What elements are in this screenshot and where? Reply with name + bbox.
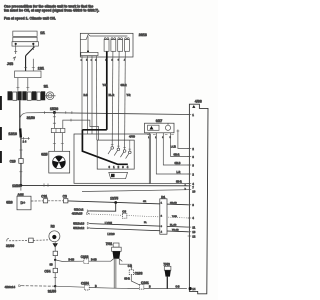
stub 5/1C:2	[90, 203, 116, 212]
left strip wires down	[81, 57, 83, 130]
svg-text:L-LR: L-LR	[171, 147, 177, 149]
wire C54 down to bus	[54, 273, 56, 286]
wire fuse 3 output	[117, 52, 120, 148]
climate control unit 4/88	[189, 99, 208, 293]
side tick with pins	[21, 137, 30, 139]
dotted row 4/15:15	[89, 214, 189, 218]
wire ground down	[54, 242, 56, 251]
svg-text:3: 3	[192, 163, 194, 167]
svg-text:8: 8	[192, 203, 194, 207]
ground point circle R3	[49, 225, 60, 248]
svg-text:3/1: 3/1	[44, 84, 49, 88]
svg-text:C161: C161	[141, 281, 149, 285]
tick a	[20, 149, 23, 151]
wire junction down to resistor	[53, 113, 55, 129]
wire C163 to 7/41	[89, 260, 111, 262]
wire 6/26 to C31 to C3 to 13/75 row	[31, 200, 64, 202]
wire relay pin 2 to 4/88 pin 2	[156, 133, 189, 174]
svg-text:2: 2	[192, 172, 194, 176]
connector C31	[41, 195, 48, 203]
svg-text:SB: SB	[50, 264, 54, 266]
fuse 1	[104, 38, 109, 52]
fuse 2	[111, 38, 116, 52]
svg-text:31/50: 31/50	[27, 116, 35, 120]
svg-text:GR-R: GR-R	[174, 155, 180, 157]
wire relay pin 3 to 4/88 pin 3	[163, 133, 189, 165]
fuse box bottom pins left strip	[82, 56, 97, 57]
fuse box pin number specks	[81, 59, 126, 62]
svg-text:C-B: C-B	[176, 287, 180, 289]
row 5/1B:13	[90, 224, 189, 228]
svg-text:1 4: 1 4	[23, 140, 27, 144]
contact hook 34/3	[13, 57, 16, 61]
svg-text:3: 3	[162, 137, 164, 139]
svg-text:4/40: 4/40	[129, 135, 135, 139]
svg-text:C3: C3	[122, 210, 126, 214]
fuse box 20/18	[80, 33, 147, 57]
svg-text:5: 5	[170, 137, 172, 139]
wire relay pin 1 to 4/88 pin 4	[149, 133, 189, 184]
svg-text:fan must be ON, at any speed (: fan must be ON, at any speed (signal fro…	[4, 9, 99, 13]
svg-text:C163: C163	[135, 271, 143, 275]
svg-text:C163: C163	[81, 255, 89, 259]
relay pins down and right to 4/88	[178, 130, 189, 149]
svg-text:14: 14	[192, 287, 195, 291]
fuse 13/16 thick segment	[19, 128, 22, 137]
svg-text:4: 4	[192, 216, 194, 220]
top bus	[80, 34, 127, 39]
svg-text:BL-SB: BL-SB	[170, 225, 177, 227]
connector strip bottom-left	[81, 52, 98, 55]
fan switch inner box	[97, 140, 134, 169]
connector C161	[139, 281, 149, 289]
svg-text:4: 4	[192, 182, 194, 186]
svg-text:C54: C54	[44, 269, 50, 273]
fuse output wires	[111, 52, 114, 147]
svg-text:Fan at speed 1. Climate unit O: Fan at speed 1. Climate unit ON.	[4, 17, 56, 21]
fuse 3	[118, 38, 123, 52]
inline connector D1	[160, 195, 167, 234]
svg-text:R-B: R-B	[84, 94, 89, 97]
note text block	[4, 5, 99, 21]
row 5/1B:12	[90, 228, 189, 232]
svg-text:1/1: 1/1	[40, 31, 45, 35]
svg-text:J4/3: J4/3	[7, 62, 13, 66]
svg-text:D+: D+	[21, 201, 26, 205]
4/88 pin ticks and numbers	[188, 115, 192, 237]
svg-text:1: 1	[192, 113, 194, 117]
connector C3 dashed on dotted row	[122, 210, 127, 219]
wire C19 down	[20, 163, 22, 185]
svg-text:VO-SB: VO-SB	[172, 230, 179, 232]
sensor 7/41	[106, 242, 123, 261]
scan edge artifacts left margin	[0, 96, 2, 163]
contact levers	[111, 145, 131, 150]
ground 31/60	[6, 238, 50, 248]
svg-text:L-R: L-R	[177, 172, 181, 174]
fuse 4	[125, 38, 130, 52]
wire C163 to C161	[131, 275, 139, 285]
row wire color specks	[143, 201, 179, 231]
svg-text:10: 10	[192, 190, 195, 194]
fan motor 6/25	[41, 151, 69, 173]
svg-text:1: 1	[148, 137, 150, 139]
wire fuse 4 output	[124, 52, 127, 150]
svg-text:7: 7	[192, 186, 194, 190]
long wire 13/29 to 4/88 pin 7	[21, 184, 189, 186]
wires 13/1 to heater switch	[18, 78, 28, 91]
svg-text:Y-SB: Y-SB	[172, 216, 177, 218]
svg-text:BL: BL	[144, 222, 148, 224]
svg-text:7/43: 7/43	[163, 262, 170, 266]
connector C3	[63, 195, 68, 203]
junction 13/29	[20, 184, 23, 187]
wire below fuse	[20, 138, 22, 159]
wires resistor to fan	[54, 133, 62, 152]
svg-text:Y-R: Y-R	[103, 84, 107, 87]
wire right terminal down	[32, 45, 34, 71]
svg-text:C-R: C-R	[128, 266, 132, 268]
thick wire fuse1 speed path	[82, 52, 127, 165]
svg-text:R3: R3	[51, 225, 55, 229]
battery/ignition unit 1/1	[12, 31, 45, 46]
svg-text:11: 11	[192, 226, 195, 230]
svg-text:13/16: 13/16	[8, 132, 17, 136]
7/41 right leg to C163b	[119, 259, 131, 270]
svg-text:6: 6	[192, 155, 194, 159]
svg-text:LV25: LV25	[105, 221, 112, 225]
svg-text:0 1 2 3 4: 0 1 2 3 4	[109, 165, 130, 169]
svg-text:OR-B: OR-B	[175, 163, 181, 165]
wire relay pin 5 to 4/88 pin 6	[171, 133, 189, 157]
svg-text:15/36: 15/36	[50, 107, 58, 111]
svg-text:7/41: 7/41	[106, 242, 113, 246]
relay 6/27	[145, 119, 175, 133]
branch wire to pin 10	[82, 190, 189, 192]
connector C19	[10, 159, 24, 164]
svg-text:12: 12	[192, 235, 195, 239]
svg-text:GR-SB: GR-SB	[170, 203, 177, 205]
connector box 13/1	[15, 66, 45, 77]
fan switch outer box	[74, 134, 150, 183]
svg-text:13/1: 13/1	[38, 66, 44, 70]
contact circles	[111, 147, 114, 150]
resistor return wire up and right	[63, 120, 99, 140]
svg-text:D1: D1	[161, 195, 165, 199]
svg-text:4/15:15: 4/15:15	[72, 212, 83, 216]
wire bottom bus to 4/88 pin 14	[89, 288, 187, 289]
svg-text:C19: C19	[10, 160, 16, 164]
heater control switch 3/1 row	[8, 84, 49, 100]
long horizontal wire to 4/88 pin 1	[45, 113, 189, 115]
svg-text:5/1B:12: 5/1B:12	[73, 226, 84, 230]
svg-text:6/26: 6/26	[6, 200, 13, 204]
wire from left terminal	[15, 45, 17, 54]
knob trapezoid	[109, 172, 128, 178]
bus 15/36 junction	[53, 111, 56, 114]
svg-text:6/27: 6/27	[156, 119, 163, 123]
svg-text:31/60: 31/60	[6, 244, 14, 248]
4/88 pin 14 blob	[189, 287, 192, 290]
svg-text:GR-R: GR-R	[121, 84, 127, 87]
pin ticks under relay	[147, 134, 174, 136]
7/41 left leg	[114, 259, 116, 288]
svg-text:5/1B:13: 5/1B:13	[73, 222, 84, 226]
svg-text:4/23:14: 4/23:14	[5, 285, 16, 289]
svg-text:C3: C3	[63, 195, 67, 199]
svg-text:13/29: 13/29	[12, 184, 20, 188]
svg-text:2: 2	[155, 137, 157, 139]
svg-text:D-SB: D-SB	[91, 259, 97, 261]
power stage 6/26	[6, 192, 31, 209]
left main vertical wire	[19, 100, 21, 128]
wire 7/43 stem	[166, 277, 168, 289]
switch lever	[26, 47, 35, 56]
svg-text:LV26: LV26	[107, 232, 114, 236]
arc to 31/50 bus	[20, 113, 45, 120]
svg-text:4/88: 4/88	[195, 99, 202, 103]
sensor 7/43	[163, 262, 171, 276]
svg-text:SB-R: SB-R	[124, 279, 130, 281]
svg-text:31/50: 31/50	[48, 290, 56, 294]
wire strip pin c down	[91, 57, 93, 134]
switch knob symbol	[45, 92, 56, 100]
svg-text:20/18: 20/18	[139, 33, 147, 37]
svg-text:2: 2	[192, 147, 194, 151]
wire lever to box 13/1	[25, 56, 27, 71]
svg-text:13: 13	[192, 230, 195, 234]
svg-text:AGM: AGM	[18, 192, 24, 196]
svg-text:13/75: 13/75	[110, 196, 118, 200]
svg-text:6/25: 6/25	[41, 153, 47, 157]
wire strip pin b down	[87, 57, 89, 134]
svg-text:Y-R: Y-R	[127, 94, 131, 97]
svg-text:BL-R: BL-R	[109, 94, 115, 97]
branch to C163a	[55, 260, 84, 262]
internal vertical to strip	[87, 36, 89, 52]
wire strip pin d down	[96, 57, 98, 140]
svg-text:GR: GR	[143, 201, 147, 203]
svg-text:D-SB: D-SB	[69, 259, 75, 261]
fan resistor pack	[51, 128, 65, 132]
svg-text:C154: C154	[81, 281, 89, 285]
svg-text:C31: C31	[41, 195, 47, 199]
wire down to C54	[54, 260, 56, 268]
svg-text:SB-R: SB-R	[176, 182, 182, 184]
